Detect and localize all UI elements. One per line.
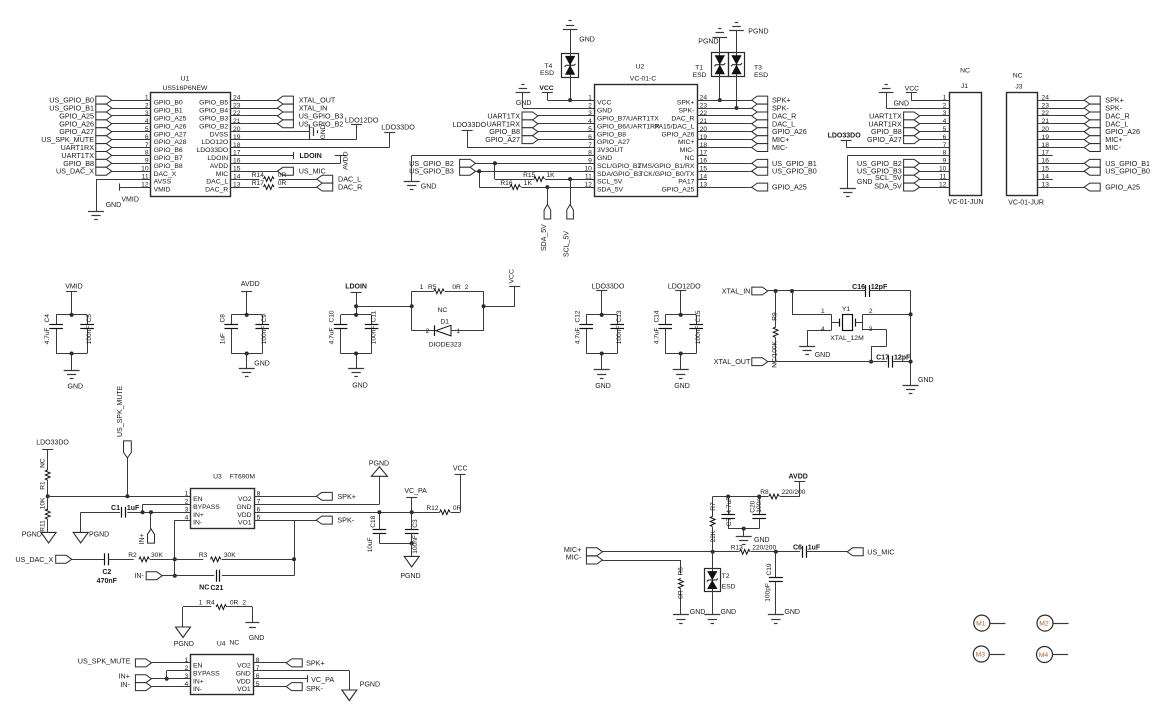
svg-text:MIC-: MIC-	[1105, 143, 1121, 152]
svg-text:GPIO_B8: GPIO_B8	[154, 163, 183, 170]
svg-text:PGND: PGND	[698, 38, 718, 45]
svg-text:GND: GND	[352, 382, 368, 389]
svg-text:VMID: VMID	[121, 197, 138, 204]
svg-text:M1: M1	[976, 621, 986, 628]
svg-text:GND: GND	[754, 537, 770, 544]
svg-text:8: 8	[256, 657, 260, 664]
svg-text:SCL/GPIO_B2: SCL/GPIO_B2	[597, 163, 641, 170]
svg-text:GPIO_A25: GPIO_A25	[1105, 183, 1140, 192]
svg-text:4.7uF: 4.7uF	[44, 327, 51, 344]
svg-text:US_GPIO_B0: US_GPIO_B0	[1105, 167, 1150, 176]
svg-text:R3: R3	[199, 552, 208, 559]
svg-text:IN-: IN-	[134, 573, 144, 580]
svg-text:22: 22	[233, 110, 241, 117]
svg-text:C3: C3	[412, 519, 419, 528]
svg-text:R14: R14	[252, 172, 264, 179]
svg-text:US_SPK_MUTE: US_SPK_MUTE	[117, 385, 124, 437]
svg-text:PGND: PGND	[174, 641, 194, 648]
svg-text:ESD: ESD	[693, 72, 707, 79]
svg-text:NC: NC	[199, 584, 209, 591]
svg-text:LDOIN: LDOIN	[345, 283, 367, 290]
svg-text:GND: GND	[815, 352, 831, 359]
svg-text:FT690M: FT690M	[230, 474, 256, 481]
svg-text:LDO33DO: LDO33DO	[453, 120, 487, 129]
svg-text:GND: GND	[516, 100, 532, 107]
svg-text:AVDD: AVDD	[241, 281, 260, 288]
svg-text:SDA_5V: SDA_5V	[874, 181, 902, 190]
svg-text:AVDD: AVDD	[343, 151, 350, 169]
svg-text:MIC-: MIC-	[566, 553, 582, 562]
svg-text:C9: C9	[261, 314, 268, 323]
svg-text:XTAL_OUT: XTAL_OUT	[714, 357, 751, 366]
svg-text:GND: GND	[597, 108, 612, 115]
svg-text:R12: R12	[426, 505, 438, 512]
svg-text:BYPASS: BYPASS	[193, 670, 220, 677]
svg-text:220/200: 220/200	[782, 489, 806, 496]
svg-text:R1: R1	[40, 481, 47, 490]
svg-text:T3: T3	[754, 65, 762, 72]
svg-text:C7: C7	[726, 517, 733, 526]
svg-text:IN+: IN+	[193, 678, 204, 685]
svg-text:1: 1	[199, 600, 203, 607]
svg-text:T1: T1	[695, 65, 703, 72]
svg-text:GND: GND	[249, 635, 265, 642]
svg-text:US_MIC: US_MIC	[299, 167, 326, 176]
svg-text:0R: 0R	[230, 600, 239, 607]
svg-text:SPK+: SPK+	[677, 100, 695, 107]
svg-text:PA15/DAC_L: PA15/DAC_L	[654, 123, 694, 130]
svg-text:LDOIN: LDOIN	[300, 151, 322, 160]
svg-text:ESD: ESD	[754, 72, 768, 79]
svg-text:PGND: PGND	[89, 532, 109, 539]
svg-text:C8: C8	[219, 314, 226, 323]
svg-text:C4: C4	[44, 314, 51, 323]
svg-text:SPK+: SPK+	[306, 658, 325, 667]
svg-text:US_GPIO_B0: US_GPIO_B0	[772, 167, 817, 176]
svg-text:12pF: 12pF	[894, 354, 911, 361]
svg-text:LDO33DO: LDO33DO	[36, 439, 69, 446]
svg-text:Y1: Y1	[842, 306, 851, 313]
svg-text:U4: U4	[217, 641, 226, 648]
svg-text:SDA_5V: SDA_5V	[597, 187, 624, 194]
svg-text:3: 3	[145, 110, 149, 117]
svg-text:SCL_5V: SCL_5V	[564, 231, 571, 257]
svg-text:U2: U2	[636, 64, 645, 71]
svg-text:100pF: 100pF	[765, 583, 772, 602]
svg-text:22K: 22K	[710, 530, 717, 542]
svg-text:MIC-: MIC-	[680, 147, 695, 154]
svg-text:R4: R4	[206, 600, 215, 607]
svg-text:DAC_R: DAC_R	[205, 187, 228, 194]
svg-text:100n: 100n	[756, 498, 763, 513]
svg-text:AVDD: AVDD	[210, 163, 228, 170]
svg-text:R17: R17	[252, 180, 264, 187]
svg-text:PGND: PGND	[748, 29, 768, 36]
svg-text:NC: NC	[1013, 72, 1023, 79]
svg-text:C19: C19	[766, 563, 773, 575]
svg-text:VCC: VCC	[597, 100, 611, 107]
svg-text:100nF: 100nF	[695, 326, 702, 345]
svg-text:21: 21	[233, 118, 241, 125]
svg-text:C18: C18	[370, 515, 377, 527]
svg-text:MIC+: MIC+	[678, 139, 694, 146]
svg-text:GPIO_B2: GPIO_B2	[199, 123, 228, 130]
svg-text:VDD: VDD	[237, 512, 251, 519]
svg-text:GPIO_A25: GPIO_A25	[772, 183, 807, 192]
svg-text:US516P6NEW: US516P6NEW	[163, 85, 209, 92]
svg-text:GND: GND	[674, 383, 690, 390]
svg-text:1K: 1K	[547, 172, 556, 179]
svg-text:US_DAC_X: US_DAC_X	[15, 555, 53, 564]
svg-text:IN-: IN-	[120, 680, 130, 689]
svg-text:LDO12DO: LDO12DO	[668, 283, 701, 290]
svg-text:TCK/GPIO_B0/TX: TCK/GPIO_B0/TX	[639, 171, 695, 178]
svg-text:T2: T2	[722, 573, 730, 580]
svg-text:PGND: PGND	[400, 573, 420, 580]
svg-text:SPK-: SPK-	[337, 516, 354, 525]
svg-text:BYPASS: BYPASS	[193, 504, 220, 511]
svg-text:C14: C14	[653, 310, 660, 322]
svg-text:1uF: 1uF	[219, 333, 226, 344]
svg-text:GND: GND	[721, 609, 737, 616]
svg-text:100nF: 100nF	[616, 326, 623, 345]
svg-text:VCC: VCC	[453, 465, 468, 472]
svg-text:0R: 0R	[452, 284, 461, 291]
svg-text:NC: NC	[229, 640, 239, 647]
svg-text:NC: NC	[40, 458, 47, 468]
svg-text:NC/100K: NC/100K	[772, 340, 779, 367]
svg-text:R11: R11	[40, 520, 47, 532]
svg-text:3: 3	[588, 110, 592, 117]
svg-text:7: 7	[256, 665, 260, 672]
svg-text:21: 21	[1042, 118, 1050, 125]
svg-text:VO2: VO2	[238, 496, 252, 503]
svg-text:GPIO_A27: GPIO_A27	[154, 131, 187, 138]
svg-text:GPIO_A27: GPIO_A27	[597, 139, 630, 146]
svg-text:1K: 1K	[524, 180, 533, 187]
svg-text:MIC-: MIC-	[772, 143, 788, 152]
svg-text:GPIO_B3: GPIO_B3	[199, 116, 228, 123]
svg-text:J3: J3	[1015, 84, 1022, 91]
svg-text:M4: M4	[1039, 652, 1049, 659]
svg-text:C17: C17	[876, 354, 889, 361]
svg-text:4: 4	[821, 326, 825, 333]
svg-text:GPIO_B4: GPIO_B4	[199, 108, 228, 115]
svg-text:1uF: 1uF	[808, 544, 821, 551]
svg-text:0R: 0R	[278, 180, 287, 187]
svg-text:R2: R2	[128, 552, 137, 559]
svg-text:US_SPK_MUTE: US_SPK_MUTE	[78, 656, 131, 665]
svg-text:M3: M3	[976, 652, 986, 659]
svg-text:22: 22	[700, 110, 708, 117]
svg-text:GPIO_A25: GPIO_A25	[154, 116, 187, 123]
svg-text:R7: R7	[710, 502, 717, 511]
svg-text:C16: C16	[852, 284, 865, 291]
svg-text:470nF: 470nF	[97, 578, 118, 585]
svg-text:4: 4	[588, 118, 592, 125]
svg-text:GND: GND	[595, 383, 611, 390]
svg-text:VCC: VCC	[905, 85, 919, 92]
svg-text:DAC_R: DAC_R	[338, 183, 362, 192]
svg-text:M2: M2	[1039, 621, 1049, 628]
svg-text:NC: NC	[438, 307, 448, 314]
svg-text:GPIO_B6/UART1RX: GPIO_B6/UART1RX	[597, 123, 660, 130]
svg-text:ESD: ESD	[540, 70, 554, 77]
svg-text:1uF: 1uF	[127, 505, 140, 512]
svg-text:GND: GND	[421, 183, 437, 190]
svg-text:4.7uF: 4.7uF	[329, 327, 336, 344]
svg-text:2: 2	[465, 284, 469, 291]
svg-text:C21: C21	[211, 585, 224, 592]
svg-text:PGND: PGND	[360, 682, 380, 689]
svg-text:1: 1	[185, 491, 189, 498]
svg-text:100nF: 100nF	[86, 326, 93, 345]
svg-text:GPIO_A25: GPIO_A25	[662, 187, 695, 194]
svg-text:1: 1	[821, 308, 825, 315]
svg-text:GPIO_A26: GPIO_A26	[154, 123, 187, 130]
svg-text:GND: GND	[254, 361, 270, 368]
svg-text:VCC: VCC	[509, 269, 516, 283]
svg-text:LDO33DO: LDO33DO	[196, 147, 228, 154]
svg-text:US_MIC: US_MIC	[867, 547, 894, 556]
svg-text:PGND: PGND	[22, 532, 42, 539]
svg-text:GPIO_A27: GPIO_A27	[867, 135, 902, 144]
svg-text:U1: U1	[181, 75, 190, 82]
svg-text:R16: R16	[500, 180, 512, 187]
svg-text:XTAL_12M: XTAL_12M	[830, 335, 864, 342]
svg-text:VCC: VCC	[539, 85, 553, 92]
svg-text:SDA_5V: SDA_5V	[541, 224, 548, 251]
svg-text:US_GPIO_B3: US_GPIO_B3	[409, 167, 454, 176]
svg-text:4.7uF: 4.7uF	[653, 327, 660, 344]
svg-text:GPIO_A28: GPIO_A28	[154, 139, 187, 146]
svg-text:1: 1	[456, 328, 460, 335]
svg-text:GND: GND	[236, 504, 251, 511]
svg-text:C15: C15	[695, 310, 702, 322]
svg-text:LDO33DO: LDO33DO	[381, 122, 415, 131]
svg-text:VC_PA: VC_PA	[404, 488, 427, 495]
svg-text:1: 1	[420, 284, 424, 291]
svg-text:NC: NC	[685, 155, 695, 162]
svg-text:C5: C5	[86, 314, 93, 323]
svg-text:R13: R13	[731, 544, 743, 551]
svg-text:DVSS: DVSS	[210, 131, 229, 138]
svg-text:VO1: VO1	[238, 520, 252, 527]
svg-text:DAC_X: DAC_X	[154, 171, 177, 178]
svg-text:GPIO_B7: GPIO_B7	[154, 155, 183, 162]
svg-text:GND: GND	[857, 179, 873, 186]
svg-text:4.7uF: 4.7uF	[726, 497, 733, 514]
svg-text:1: 1	[184, 657, 188, 664]
svg-text:4: 4	[943, 118, 947, 125]
svg-text:IN-: IN-	[193, 520, 202, 527]
svg-text:VDD: VDD	[236, 678, 250, 685]
svg-text:T4: T4	[544, 63, 552, 70]
svg-text:DAC_L: DAC_L	[206, 179, 228, 186]
svg-text:SPK+: SPK+	[337, 492, 356, 501]
svg-text:30K: 30K	[224, 552, 236, 559]
svg-text:SDA/GPIO_B3: SDA/GPIO_B3	[597, 171, 642, 178]
svg-text:C1: C1	[111, 505, 120, 512]
svg-text:2: 2	[242, 600, 246, 607]
svg-text:VC-01-C: VC-01-C	[630, 76, 657, 83]
svg-text:AVDD: AVDD	[789, 474, 808, 481]
svg-text:2: 2	[426, 328, 430, 335]
svg-text:GND: GND	[918, 377, 934, 384]
svg-text:VMID: VMID	[154, 187, 171, 194]
svg-text:0R: 0R	[677, 590, 684, 599]
svg-text:EN: EN	[193, 663, 203, 670]
svg-text:US_DAC_X: US_DAC_X	[56, 167, 94, 176]
svg-text:GPIO_B0: GPIO_B0	[154, 100, 183, 107]
svg-text:DIODE323: DIODE323	[429, 342, 462, 349]
svg-text:22: 22	[1042, 110, 1050, 117]
svg-text:AVSS: AVSS	[154, 179, 172, 186]
svg-text:D1: D1	[441, 319, 450, 326]
svg-text:VO1: VO1	[237, 686, 251, 693]
svg-text:C10: C10	[329, 310, 336, 322]
svg-text:GPIO_B5: GPIO_B5	[199, 100, 228, 107]
svg-text:10K: 10K	[40, 497, 47, 509]
svg-text:LDO12O: LDO12O	[201, 139, 228, 146]
svg-text:GND: GND	[597, 155, 612, 162]
svg-text:PA17: PA17	[678, 179, 694, 186]
svg-text:J1: J1	[961, 83, 968, 90]
svg-text:220/200: 220/200	[752, 544, 776, 551]
svg-text:R8: R8	[760, 489, 769, 496]
svg-text:LDO33DO: LDO33DO	[592, 283, 625, 290]
svg-text:C13: C13	[616, 310, 623, 322]
svg-text:GPIO_B7/UART1TX: GPIO_B7/UART1TX	[597, 116, 659, 123]
svg-text:R9: R9	[772, 312, 779, 321]
svg-text:GND: GND	[68, 384, 84, 391]
svg-text:U3: U3	[213, 474, 222, 481]
svg-text:TMS/GPIO_B1/RX: TMS/GPIO_B1/RX	[638, 163, 695, 170]
svg-text:100nF: 100nF	[261, 326, 268, 345]
svg-text:12pF: 12pF	[871, 284, 888, 291]
svg-text:C11: C11	[371, 311, 378, 323]
svg-text:GND: GND	[784, 609, 800, 616]
svg-text:3V3OUT: 3V3OUT	[597, 147, 623, 154]
svg-text:R5: R5	[428, 284, 437, 291]
svg-text:3: 3	[943, 110, 947, 117]
svg-text:LDOIN: LDOIN	[207, 155, 228, 162]
svg-text:C2: C2	[102, 569, 111, 576]
svg-text:100nF: 100nF	[371, 326, 378, 345]
svg-text:GND: GND	[893, 100, 909, 107]
svg-text:0R: 0R	[278, 172, 287, 179]
svg-text:GPIO_A26: GPIO_A26	[662, 131, 695, 138]
svg-text:4.7uF: 4.7uF	[574, 327, 581, 344]
svg-text:LDO12DO: LDO12DO	[345, 115, 379, 124]
svg-text:GND: GND	[236, 670, 251, 677]
svg-text:EN: EN	[193, 496, 203, 503]
svg-text:SCL_5V: SCL_5V	[597, 179, 623, 186]
svg-text:LDO33DO: LDO33DO	[828, 132, 862, 139]
svg-text:GND: GND	[579, 37, 595, 44]
svg-text:IN-: IN-	[193, 686, 202, 693]
svg-text:PGND: PGND	[369, 460, 389, 467]
svg-text:VC-01-JUN: VC-01-JUN	[948, 199, 984, 206]
svg-text:DAC_R: DAC_R	[671, 116, 694, 123]
svg-text:C6: C6	[793, 544, 802, 551]
svg-text:VO2: VO2	[237, 663, 251, 670]
svg-text:XTAL_IN: XTAL_IN	[722, 286, 751, 295]
svg-text:IN+: IN+	[193, 512, 204, 519]
svg-text:SPK-: SPK-	[679, 108, 695, 115]
svg-text:SPK-: SPK-	[306, 684, 323, 693]
svg-text:ESD: ESD	[722, 583, 736, 590]
svg-text:GND: GND	[320, 124, 327, 139]
svg-text:GPIO_B6: GPIO_B6	[154, 147, 183, 154]
svg-text:R15: R15	[523, 172, 535, 179]
svg-text:NC: NC	[960, 67, 970, 74]
svg-text:MIC: MIC	[216, 171, 229, 178]
svg-text:IN+: IN+	[139, 533, 146, 544]
svg-text:GND: GND	[106, 202, 122, 209]
svg-text:GPIO_A27: GPIO_A27	[485, 135, 520, 144]
svg-text:VC_PA: VC_PA	[311, 675, 334, 684]
svg-text:VMID: VMID	[65, 283, 83, 290]
svg-text:VC-01-JUR: VC-01-JUR	[1008, 200, 1044, 207]
svg-text:4: 4	[145, 118, 149, 125]
svg-text:10uF: 10uF	[367, 537, 374, 552]
svg-text:21: 21	[700, 118, 708, 125]
svg-text:30K: 30K	[151, 552, 163, 559]
svg-text:GPIO_B8: GPIO_B8	[597, 131, 626, 138]
svg-text:C12: C12	[574, 310, 581, 322]
svg-text:GND: GND	[690, 609, 706, 616]
svg-text:R6: R6	[677, 567, 684, 576]
svg-text:GPIO_B1: GPIO_B1	[154, 108, 183, 115]
svg-text:2: 2	[184, 665, 188, 672]
